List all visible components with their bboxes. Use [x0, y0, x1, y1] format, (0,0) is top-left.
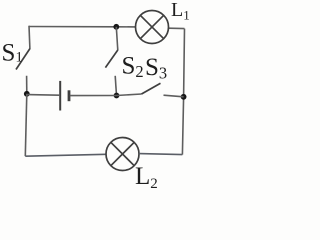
- wire S2 upper lead (top junction down to S2 pivot): [116, 27, 118, 51]
- wire bottom left (bottom-left corner to lamp L2): [25, 154, 106, 156]
- switch S2 lower contact stub: [115, 76, 116, 96]
- wire top right (lamp L1 to top-right corner): [169, 27, 185, 29]
- wire right edge (bottom-right corner up to top-right corner): [182, 29, 184, 155]
- wire battery branch left (left junction to battery): [27, 94, 59, 97]
- battery cell: long plate (+): [59, 81, 61, 111]
- svg-text:S1: S1: [2, 40, 23, 67]
- switch S1 lower contact stub: [26, 76, 28, 94]
- wire top (from top-left corner to lamp L1): [29, 26, 136, 28]
- switch S3 lever: [142, 83, 161, 94]
- wire S3 right contact (to right junction): [164, 95, 184, 97]
- battery cell: short plate (-): [68, 90, 71, 101]
- node junction right (battery branch / right edge): [181, 94, 187, 100]
- wire battery branch right (battery to middle junction to S3 pivot): [70, 94, 142, 96]
- wire bottom right (lamp L2 to bottom-right corner): [139, 154, 182, 155]
- lamp L2: [106, 138, 139, 171]
- svg-text:L1: L1: [171, 0, 190, 22]
- wire left edge upper (top-left corner down to S1 pivot): [28, 26, 31, 49]
- lamp L1: [136, 11, 169, 44]
- node junction top (S2 branch / top wire): [113, 24, 119, 30]
- svg-text:S2: S2: [122, 53, 144, 82]
- switch S2 lever: [105, 50, 117, 68]
- svg-text:S3: S3: [145, 54, 167, 83]
- switch S1 lever: [16, 49, 30, 70]
- wire left edge lower (junction down to bottom-left corner): [25, 94, 27, 156]
- node junction middle (S2 branch / battery wire): [114, 93, 120, 99]
- svg-text:L2: L2: [135, 163, 158, 188]
- node junction left (battery branch / left edge): [24, 91, 30, 97]
